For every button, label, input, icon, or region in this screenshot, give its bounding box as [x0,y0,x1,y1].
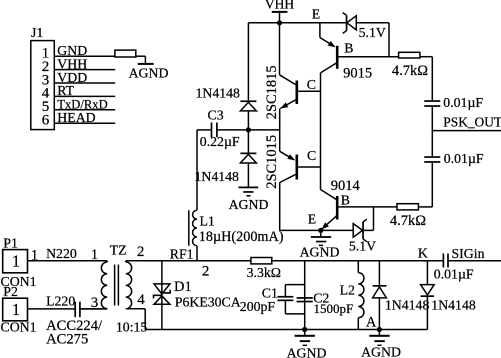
wire C column [304,261,306,330]
diode 1N4148 middle [247,130,249,153]
diode 1N4148 top [247,23,249,101]
svg-text:6: 6 [42,113,50,129]
inductor L2 [357,261,359,273]
svg-text:200pF: 200pF [240,299,276,314]
diode 1N4148 up [378,261,380,286]
node junction C3 [246,127,251,132]
wire Q3 collector [320,73,322,91]
wire top rail [126,260,443,262]
svg-text:AGND: AGND [229,197,269,212]
wire PSK column [431,131,433,157]
resistor 3.3k [251,258,272,264]
svg-text:AGND: AGND [287,346,327,358]
wire column to R bottom [431,163,433,207]
svg-text:5.1V: 5.1V [349,238,376,253]
svg-text:K: K [418,246,428,261]
wire zener bottom lead [364,229,374,231]
wire Q2 collector [279,183,281,231]
svg-text:D1: D1 [174,279,192,295]
svg-text:E: E [308,211,316,226]
wire C3 right [217,129,279,131]
wire zener top lead [356,22,389,24]
wire center column [320,91,322,189]
svg-text:9015: 9015 [343,65,372,81]
wire Q2 emitter [279,130,281,151]
svg-text:1: 1 [12,300,20,319]
svg-text:C: C [307,77,316,92]
svg-text:J1: J1 [31,25,43,40]
svg-text:CON1: CON1 [1,320,37,335]
transformer TZ primary [101,262,107,309]
wire P1 to TZ [28,260,108,262]
svg-text:0.22µF: 0.22µF [200,134,240,149]
svg-text:1N4148: 1N4148 [385,297,430,312]
transformer TZ core [114,265,116,306]
svg-text:2: 2 [137,244,145,260]
svg-text:B: B [344,41,353,56]
diode zener 5.1V top [347,16,357,30]
svg-text:0.01µF: 0.01µF [443,95,483,110]
svg-text:AGND: AGND [129,66,169,81]
wire Q4 base [339,206,398,208]
svg-text:E: E [312,7,320,22]
capacitor 0.01uF second [424,156,440,158]
ground AGND 4 [304,330,306,335]
svg-text:10:15: 10:15 [116,320,148,335]
wire VHH rail [248,22,346,24]
svg-text:P1: P1 [3,235,18,250]
wire C3 left [197,129,211,131]
svg-text:1: 1 [91,247,99,263]
svg-text:1N4148: 1N4148 [195,169,240,184]
svg-text:2: 2 [202,264,210,280]
resistor 4.7k bottom [397,204,418,210]
svg-text:AGND: AGND [361,344,401,358]
svg-text:TZ: TZ [110,243,127,258]
ground AGND 3 [320,230,322,236]
svg-text:C3: C3 [208,108,224,123]
wire GND to resistor [136,55,146,57]
wire E stem [319,23,321,38]
wire emitter row [280,229,353,231]
transistor Q1 2SC1815 [279,23,281,75]
node junction diode bottom [377,327,382,332]
svg-text:1N4148: 1N4148 [196,85,241,100]
node junction VHH [277,20,282,25]
svg-text:1: 1 [12,252,20,271]
svg-text:RF1: RF1 [170,247,194,262]
svg-text:C: C [307,148,316,163]
svg-text:4.7kΩ: 4.7kΩ [392,63,428,79]
svg-text:1500pF: 1500pF [314,301,354,316]
svg-text:A: A [366,314,377,330]
diode 1N4148 down [426,261,428,285]
svg-text:HEAD: HEAD [57,110,95,125]
resistor R1 [115,50,136,57]
svg-text:0.01µF: 0.01µF [434,266,474,281]
wire Q2 base [298,166,320,168]
svg-text:PSK_OUT: PSK_OUT [443,115,501,130]
node junction C bottom [302,327,307,332]
wire bottom rail [145,329,427,331]
capacitor C3 [211,123,213,138]
wire C1 loop [285,284,304,286]
svg-text:SIGin: SIGin [452,246,485,261]
svg-text:N220: N220 [46,246,77,261]
transformer TZ secondary [126,262,132,309]
svg-text:2SC1015: 2SC1015 [264,135,280,189]
svg-text:0.01µF: 0.01µF [444,151,484,166]
svg-text:2SC1815: 2SC1815 [264,65,280,119]
inductor L1 [196,130,198,210]
capacitor ACC224/AC275 [74,302,76,318]
diode zener 5.1V bottom [353,224,362,238]
wire Q1 emitter [279,109,281,130]
wire P2 to cap [28,308,75,310]
transistor Q4 9014 [321,190,337,200]
svg-text:4: 4 [137,292,145,308]
svg-text:1: 1 [31,248,39,264]
svg-text:RT: RT [57,83,74,98]
wire TZ4 down [144,309,146,330]
capacitor C2 [297,297,313,299]
ground AGND 2 [239,187,259,189]
wire J1 pin stubs [54,55,115,57]
svg-text:3.3kΩ: 3.3kΩ [247,265,281,280]
wire to PSK_OUT [431,107,433,131]
svg-text:VHH: VHH [265,0,294,12]
svg-text:L220: L220 [46,294,75,309]
capacitor 0.01uF top [424,100,440,102]
svg-text:L2: L2 [340,282,355,297]
wire cap to TZ [81,308,108,310]
svg-text:L1: L1 [200,213,215,228]
wire Q3 base [339,56,399,58]
svg-text:P2: P2 [3,284,18,299]
svg-text:18µH(200mA): 18µH(200mA) [199,229,284,245]
capacitor C1 [277,296,293,298]
svg-text:5.1V: 5.1V [359,25,386,40]
svg-text:B: B [341,192,350,207]
resistor 4.7k top [399,52,420,58]
svg-text:P6KE30CA: P6KE30CA [175,295,241,310]
ground AGND [138,63,154,65]
transistor Q2 2SC1015 [296,155,299,180]
svg-text:1N4148: 1N4148 [431,297,476,312]
svg-text:AC275: AC275 [46,332,88,348]
svg-text:4.7kΩ: 4.7kΩ [390,213,426,229]
wire R top to column [420,56,432,58]
node junction E [318,228,323,233]
diode TVS D1 [161,261,163,330]
transistor Q3 9015 [320,38,334,47]
capacitor 0.01uF SIGin [442,254,444,268]
svg-text:AGND: AGND [300,245,340,260]
ground AGND 5 [378,330,380,335]
